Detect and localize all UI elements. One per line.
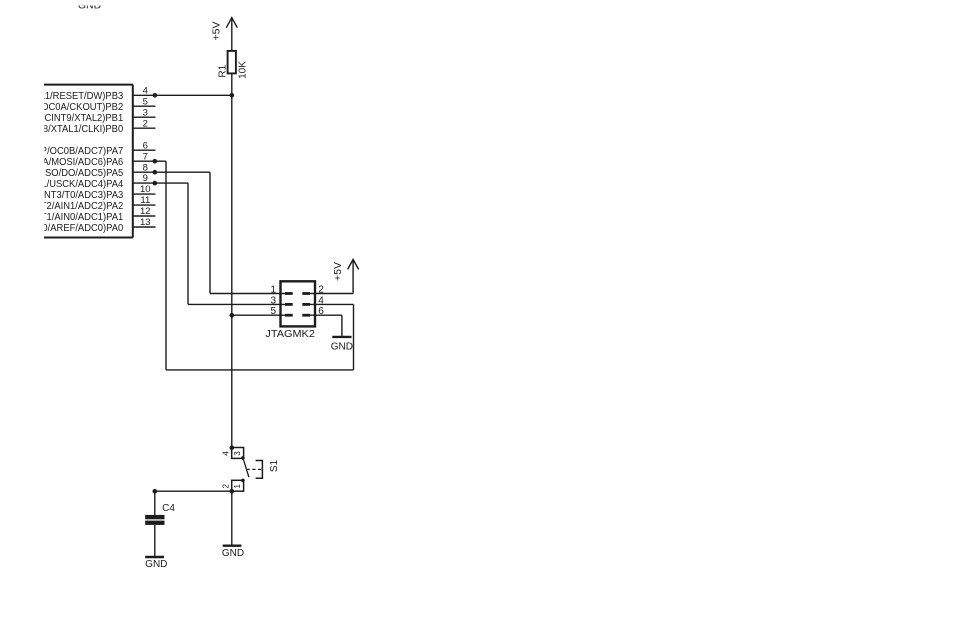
svg-text:3: 3 xyxy=(270,295,276,306)
switch S1 xyxy=(221,448,280,492)
wire main net to JTAG pin5 xyxy=(232,314,285,316)
wire S1 pin2 to GND xyxy=(231,491,233,546)
wire S1 pin2 to C4 xyxy=(155,490,232,492)
JTAGMK2 pin numbers xyxy=(270,285,324,318)
wire R1 to switch S1 (main vertical net) xyxy=(231,73,233,447)
wire PB3 pin4 to +5V net xyxy=(133,94,232,96)
ground GND (below C4) xyxy=(145,557,167,570)
wire +5V to R1 xyxy=(231,18,233,51)
wire PA4 pin9 to JTAG pin3 xyxy=(133,183,285,304)
IC pin stubs (unconnected pins 5,3,2,6,10,11,12,13) xyxy=(133,106,156,227)
svg-text:10K: 10K xyxy=(238,61,249,79)
svg-text:P/OC0B/ADC7)PA7: P/OC0B/ADC7)PA7 xyxy=(41,146,124,157)
connector JTAGMK2 xyxy=(265,281,315,340)
wire JTAG pin2 to +5V xyxy=(310,260,353,294)
svg-text:S1: S1 xyxy=(269,459,280,472)
ground GND (JTAG pin6) xyxy=(331,337,353,353)
svg-text:T1/AIN0/ADC1)PA1: T1/AIN0/ADC1)PA1 xyxy=(41,212,124,223)
svg-text:T0/AREF/ADC0)PA0: T0/AREF/ADC0)PA0 xyxy=(37,223,124,234)
IC pin labels (clipped at left) xyxy=(36,91,124,234)
wire JTAG pin6 to GND xyxy=(310,315,342,337)
wire PA6 pin7 to JTAG pin4 net (left vertical) xyxy=(133,161,166,370)
junction switch S1 pin4 xyxy=(230,445,235,450)
svg-text:2: 2 xyxy=(221,484,230,489)
power +5V (top) xyxy=(211,18,238,41)
svg-text:PCINT9/XTAL2)PB1: PCINT9/XTAL2)PB1 xyxy=(38,113,123,124)
junction main net / JTAG pin5 xyxy=(230,313,235,318)
IC U1 (box, left side cropped) xyxy=(44,85,133,238)
power +5V (at JTAG) xyxy=(332,260,359,281)
svg-text:+5V: +5V xyxy=(211,22,223,41)
svg-text:C4: C4 xyxy=(162,503,175,514)
capacitor C4 xyxy=(145,503,175,525)
svg-text:GND: GND xyxy=(145,559,167,570)
svg-text:GND: GND xyxy=(78,0,102,11)
junction PA5 stub xyxy=(153,170,158,175)
svg-text:GND: GND xyxy=(222,548,244,559)
junction R1 net at pin4 row xyxy=(230,93,235,98)
svg-text:+5V: +5V xyxy=(332,262,344,281)
IC pin numbers xyxy=(140,85,151,228)
svg-text:4: 4 xyxy=(221,451,230,456)
svg-text:R1: R1 xyxy=(217,64,228,77)
svg-text:1: 1 xyxy=(270,285,276,296)
wire down to C4 xyxy=(154,491,156,515)
junction switch S1 pin2 / C4 net xyxy=(230,489,235,494)
svg-text:3: 3 xyxy=(233,451,242,456)
svg-text:L/USCK/ADC4)PA4: L/USCK/ADC4)PA4 xyxy=(41,179,123,190)
ground GND (below S1) xyxy=(222,546,244,559)
junction C4 net xyxy=(153,489,158,494)
junction PA6 stub xyxy=(153,159,158,164)
junction PB3 stub xyxy=(153,93,158,98)
svg-text:11/RESET/DW)PB3: 11/RESET/DW)PB3 xyxy=(40,91,123,102)
wire JTAG pin4 to PA6 net (bottom loop) xyxy=(166,304,354,370)
svg-text:1: 1 xyxy=(233,484,242,489)
svg-text:GND: GND xyxy=(331,342,353,353)
svg-text:T2/AIN1/ADC2)PA2: T2/AIN1/ADC2)PA2 xyxy=(41,201,124,212)
svg-text:INT3/T0/ADC3)PA3: INT3/T0/ADC3)PA3 xyxy=(41,190,123,201)
svg-text:ISO/DO/ADC5)PA5: ISO/DO/ADC5)PA5 xyxy=(42,168,123,179)
wire PA5 pin8 to JTAG pin1 xyxy=(133,172,285,293)
svg-text:5: 5 xyxy=(270,306,276,317)
svg-text:DA/MOSI/ADC6)PA6: DA/MOSI/ADC6)PA6 xyxy=(36,157,124,168)
svg-text:OC0A/CKOUT)PB2: OC0A/CKOUT)PB2 xyxy=(41,102,123,113)
junction PA4 stub xyxy=(153,181,158,186)
wire C4 to GND xyxy=(154,525,156,557)
resistor R1 xyxy=(217,51,248,79)
svg-text:8/XTAL1/CLKI)PB0: 8/XTAL1/CLKI)PB0 xyxy=(43,124,124,135)
node GND (top, clipped label) xyxy=(78,0,102,11)
svg-text:JTAGMK2: JTAGMK2 xyxy=(265,329,315,340)
